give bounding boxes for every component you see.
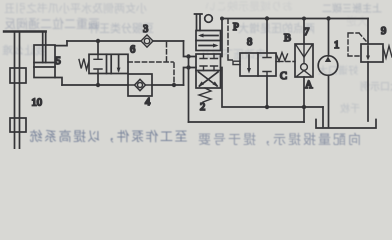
cylinder 5 rod — [43, 32, 46, 63]
travel valve 1 roller — [195, 14, 213, 31]
svg-text:4: 4 — [145, 97, 151, 108]
pilot P line (dashed) — [228, 19, 233, 60]
valve 2 crossed arrows — [198, 72, 219, 87]
valve 8 pilot stub right with dash — [276, 61, 283, 63]
wire: valve7 bottom to return and tank line — [303, 77, 305, 122]
valve 8 flow arrow — [247, 55, 251, 74]
valve 2 spring — [199, 88, 211, 102]
svg-text:1: 1 — [334, 40, 339, 51]
wire: valve6 top port — [97, 41, 99, 54]
wire: P supply down to valve — [221, 19, 223, 57]
relief valve 9 pilot (dashed) — [348, 33, 366, 56]
pump 1 — [318, 56, 338, 76]
node: valve6 top branch — [96, 39, 100, 43]
valve 6 spring — [79, 59, 89, 70]
svg-text:A: A — [305, 80, 313, 91]
valve 2 closed T marks — [200, 54, 218, 71]
guide block upper (component 10) — [10, 68, 26, 83]
node: pilot tap on B-line — [172, 83, 176, 87]
wire: bottom B-line to check box 4 — [62, 84, 128, 86]
valve 8 body — [240, 53, 276, 76]
wire: return drop to tank — [322, 107, 324, 127]
node: line A junction — [302, 105, 306, 109]
svg-text:2: 2 — [200, 102, 205, 113]
wire: valve7 top port — [303, 19, 305, 45]
pilot line valve6 (dashed) — [128, 43, 174, 84]
node: valve 8 top tap — [265, 16, 269, 20]
wire: B-line from box4 to valve — [152, 84, 184, 86]
svg-text:9: 9 — [381, 26, 386, 37]
wire: top rail A-line — [67, 40, 184, 42]
wire: valve drain to return line — [221, 68, 324, 108]
valve 6 flow path with arrow — [111, 54, 120, 73]
pilot valve 2 body — [196, 54, 221, 88]
travel valve 1 body — [196, 31, 221, 51]
wire: cylinder bottom port — [55, 78, 62, 86]
node: junction A-port — [186, 54, 190, 58]
svg-text:5: 5 — [56, 56, 61, 67]
guide rails 10 — [15, 32, 20, 150]
relief valve 9 body — [361, 44, 383, 62]
wire: rail corner down to valve port A — [184, 41, 197, 57]
wire: P rail top — [222, 18, 368, 20]
svg-text:10: 10 — [32, 98, 43, 109]
wire: valve8 bottom port — [266, 76, 268, 107]
node: pump outlet — [326, 16, 330, 20]
wire: valve8 top port — [266, 19, 268, 54]
node: valve7 top tap — [302, 17, 306, 21]
svg-text:P: P — [233, 22, 239, 33]
svg-text:6: 6 — [130, 45, 135, 56]
wire: relief drain to tank — [367, 62, 369, 121]
wire: B-line corner up to valve port B — [184, 68, 197, 86]
guide block lower — [10, 118, 26, 132]
svg-text:B: B — [284, 33, 291, 44]
node: valve8 outlet junction — [265, 105, 269, 109]
node: valve6 bottom branch — [96, 83, 100, 87]
travel valve 1 arrows — [198, 34, 219, 48]
svg-text:3: 3 — [143, 24, 148, 35]
back-pressure valve 7 box — [295, 44, 313, 77]
tank — [316, 120, 376, 129]
valve 8 closed T marks — [263, 53, 271, 76]
wire: P rail corner to relief 9 — [367, 19, 369, 45]
check valve 4 symbol — [128, 79, 152, 90]
wire: tank return along bottom — [189, 121, 305, 123]
wire: rod-side port to rail — [55, 41, 67, 46]
cylinder 5 piston — [34, 63, 55, 68]
svg-text:8: 8 — [247, 37, 252, 48]
relief valve 9 spring — [383, 46, 392, 58]
check valve 4 box — [128, 74, 152, 96]
valve 8 pilot stub — [233, 61, 240, 64]
valve 6 closed-port T marks — [94, 54, 102, 73]
node: P corner — [220, 17, 224, 21]
wire: pump outlet — [328, 19, 330, 57]
valve 8 spring — [276, 53, 288, 62]
wire: differential connection vertical — [188, 57, 190, 123]
bleed-through ghost text — [4, 0, 147, 16]
valve 7 spring and ball — [296, 44, 312, 76]
cylinder 5 barrel — [34, 45, 55, 78]
valve 6 body — [89, 54, 128, 73]
check valve 3 — [141, 35, 153, 47]
wire: valve6 bottom port — [97, 74, 99, 86]
node: junction B-port — [186, 65, 190, 69]
relief valve 9 arrow — [366, 46, 370, 61]
svg-text:C: C — [280, 71, 287, 82]
machine table (load) — [4, 30, 46, 32]
wire: pump suction — [328, 75, 330, 126]
